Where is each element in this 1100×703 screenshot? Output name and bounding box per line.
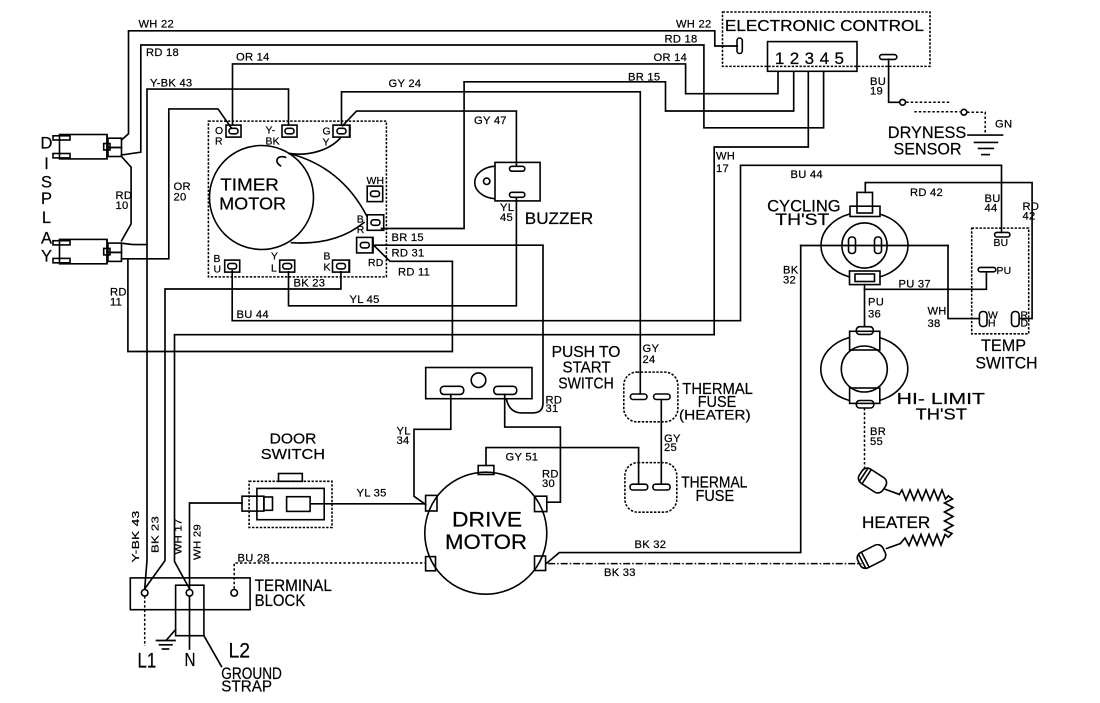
svg-text:D: D <box>1021 319 1029 330</box>
svg-text:Y: Y <box>323 138 330 149</box>
svg-text:42: 42 <box>1023 211 1036 223</box>
svg-text:4: 4 <box>820 49 829 68</box>
svg-text:19: 19 <box>870 86 883 98</box>
svg-text:34: 34 <box>397 435 410 447</box>
svg-text:38: 38 <box>928 318 941 330</box>
svg-text:BU: BU <box>994 238 1009 249</box>
svg-text:OR 14: OR 14 <box>654 52 688 64</box>
svg-text:HEATER: HEATER <box>862 513 930 532</box>
svg-text:FUSE: FUSE <box>696 488 735 505</box>
svg-text:SWITCH: SWITCH <box>976 355 1038 373</box>
svg-text:RD 31: RD 31 <box>392 248 425 260</box>
svg-text:YL 45: YL 45 <box>350 294 380 306</box>
svg-text:I: I <box>44 155 49 173</box>
svg-text:36: 36 <box>868 309 881 321</box>
svg-text:B: B <box>324 252 331 263</box>
svg-text:17: 17 <box>716 163 729 175</box>
svg-text:BR 15: BR 15 <box>628 72 660 84</box>
svg-text:WH: WH <box>716 151 735 163</box>
svg-text:BLOCK: BLOCK <box>255 591 306 610</box>
svg-text:TH'ST: TH'ST <box>916 407 968 424</box>
svg-text:P: P <box>41 190 52 208</box>
svg-text:L2: L2 <box>229 639 251 662</box>
svg-text:SWITCH: SWITCH <box>261 446 325 463</box>
svg-text:Y: Y <box>271 252 278 263</box>
svg-text:TEMP: TEMP <box>981 337 1026 355</box>
svg-text:(HEATER): (HEATER) <box>679 407 751 423</box>
svg-text:HI- LIMIT: HI- LIMIT <box>897 391 986 408</box>
svg-text:RD: RD <box>368 258 384 269</box>
svg-text:RD 42: RD 42 <box>910 187 943 199</box>
svg-text:RD 18: RD 18 <box>146 47 179 59</box>
svg-text:WH: WH <box>928 306 947 318</box>
svg-text:ELECTRONIC CONTROL: ELECTRONIC CONTROL <box>725 18 924 35</box>
svg-text:START: START <box>563 359 611 376</box>
svg-text:BK 32: BK 32 <box>635 539 667 551</box>
svg-text:D: D <box>41 135 53 153</box>
svg-text:24: 24 <box>643 354 656 366</box>
svg-text:20: 20 <box>174 191 187 203</box>
svg-text:PU 37: PU 37 <box>899 278 931 290</box>
svg-text:GN: GN <box>995 119 1012 131</box>
svg-text:A: A <box>41 230 52 248</box>
svg-text:PU: PU <box>868 297 884 309</box>
svg-text:OR 14: OR 14 <box>236 52 270 64</box>
svg-text:DRIVE: DRIVE <box>452 509 522 532</box>
svg-text:R: R <box>357 225 365 236</box>
svg-text:STRAP: STRAP <box>221 679 272 696</box>
svg-text:44: 44 <box>985 203 998 215</box>
svg-text:2: 2 <box>790 49 799 68</box>
svg-text:WH 22: WH 22 <box>676 19 711 31</box>
svg-text:H: H <box>988 319 996 330</box>
svg-text:RD 18: RD 18 <box>665 34 698 46</box>
svg-text:L: L <box>42 209 51 227</box>
svg-text:YL 35: YL 35 <box>357 488 387 500</box>
svg-text:WH 17: WH 17 <box>174 518 185 554</box>
svg-text:BK 33: BK 33 <box>604 567 636 579</box>
svg-text:L: L <box>271 264 277 275</box>
svg-text:TH'ST: TH'ST <box>775 211 829 229</box>
svg-text:SENSOR: SENSOR <box>894 140 962 159</box>
svg-text:Y-: Y- <box>266 126 276 137</box>
svg-text:BUZZER: BUZZER <box>525 210 593 228</box>
svg-text:L1: L1 <box>138 649 157 672</box>
svg-text:Y-BK 43: Y-BK 43 <box>131 510 142 562</box>
svg-text:B: B <box>357 215 364 226</box>
svg-text:GY 51: GY 51 <box>506 452 539 464</box>
svg-text:U: U <box>214 265 222 276</box>
svg-text:BU 44: BU 44 <box>791 169 823 181</box>
svg-text:31: 31 <box>546 403 559 415</box>
svg-text:RD 11: RD 11 <box>398 267 430 279</box>
svg-text:BU 28: BU 28 <box>238 553 270 565</box>
svg-text:MOTOR: MOTOR <box>219 194 286 214</box>
svg-text:Y-BK 43: Y-BK 43 <box>150 78 192 90</box>
svg-text:1: 1 <box>775 49 784 68</box>
svg-text:WH 22: WH 22 <box>139 19 174 31</box>
svg-text:55: 55 <box>870 436 883 448</box>
svg-text:SWITCH: SWITCH <box>558 376 614 393</box>
svg-text:R: R <box>215 137 223 148</box>
svg-text:N: N <box>185 650 196 670</box>
svg-text:K: K <box>324 263 331 274</box>
svg-text:32: 32 <box>783 275 796 287</box>
svg-text:5: 5 <box>834 49 843 68</box>
svg-text:BU 44: BU 44 <box>237 309 269 321</box>
svg-text:Y: Y <box>41 248 52 266</box>
svg-text:GY 24: GY 24 <box>389 78 422 90</box>
svg-text:O: O <box>215 126 223 137</box>
svg-text:10: 10 <box>116 200 129 212</box>
svg-text:TIMER: TIMER <box>220 175 279 195</box>
svg-text:BK 23: BK 23 <box>294 278 326 290</box>
svg-text:G: G <box>323 127 331 138</box>
svg-text:GY 47: GY 47 <box>474 115 507 127</box>
svg-text:30: 30 <box>542 478 555 490</box>
svg-text:3: 3 <box>805 49 814 68</box>
svg-text:45: 45 <box>500 212 513 224</box>
svg-text:S: S <box>41 174 52 192</box>
svg-text:BK: BK <box>266 137 280 148</box>
svg-text:B: B <box>214 254 221 265</box>
svg-text:DOOR: DOOR <box>270 431 317 448</box>
svg-text:25: 25 <box>664 442 677 454</box>
svg-text:WH 29: WH 29 <box>193 524 204 560</box>
svg-text:PU: PU <box>997 266 1012 277</box>
svg-text:BK 23: BK 23 <box>151 516 162 553</box>
svg-text:MOTOR: MOTOR <box>445 531 527 554</box>
svg-text:11: 11 <box>110 297 122 309</box>
svg-text:WH: WH <box>367 176 385 187</box>
svg-text:BR 15: BR 15 <box>392 232 424 244</box>
